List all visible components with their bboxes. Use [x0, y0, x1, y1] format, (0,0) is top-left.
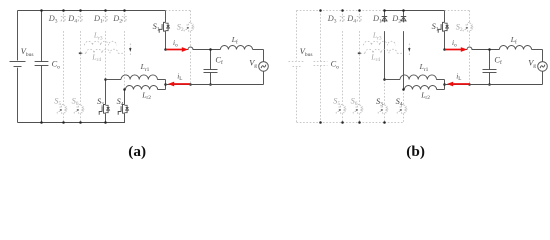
- inductor Lr1 (b): [385, 79, 401, 81]
- wire D3-S5 branch (b): [342, 11, 344, 23]
- battery V_bus (b): [296, 11, 298, 61]
- wire output top (b): [445, 47, 500, 49]
- wire S1 branch (a): [165, 11, 167, 23]
- svg-text:S2: S2: [177, 22, 184, 33]
- node top rail Co (a): [40, 9, 43, 12]
- node top rail Co (b): [319, 9, 322, 12]
- svg-text:S6: S6: [351, 97, 358, 108]
- svg-text:Vbus: Vbus: [300, 47, 313, 58]
- svg-text:Vbus: Vbus: [21, 47, 34, 58]
- wire top rail extension to S2 (a): [166, 10, 191, 12]
- node S1 source (a): [164, 48, 167, 51]
- transistor S2 (a): [189, 22, 191, 31]
- svg-text:Lr2: Lr2: [141, 90, 151, 101]
- diode D1 (a): [103, 17, 108, 21]
- transistor S4 (b): [402, 105, 404, 114]
- transistor S3 (a): [104, 105, 106, 114]
- svg-text:Vg: Vg: [528, 58, 536, 69]
- svg-text:D3: D3: [48, 14, 58, 25]
- node Lr2 left (b): [402, 88, 405, 91]
- node S2 source (a): [189, 83, 192, 86]
- node Cf bottom (a): [209, 83, 212, 86]
- capacitor C_o (a): [41, 11, 43, 62]
- inductor Lr3 (b): [364, 41, 396, 45]
- wire top rail left segment (b): [297, 10, 385, 12]
- diode D3 (a): [61, 17, 66, 21]
- diode D2 (a): [122, 17, 127, 21]
- transistor S3 (b): [383, 105, 385, 114]
- svg-text:Lr2: Lr2: [420, 90, 430, 101]
- svg-text:Lr4: Lr4: [370, 52, 380, 63]
- node Lr1 left (b): [383, 78, 386, 81]
- wire D1 branch upper (a): [105, 11, 107, 23]
- node bottom rail S5 (a): [62, 121, 65, 124]
- inductor Lr2 (a): [125, 85, 157, 89]
- node inductor junction (a): [164, 83, 167, 86]
- node Cf top (b): [488, 48, 491, 51]
- transistor S6 (a): [79, 105, 81, 114]
- source Vg (b): [542, 50, 544, 62]
- transistor S6 (b): [358, 105, 360, 114]
- svg-text:Co: Co: [331, 60, 340, 71]
- wire Lr1-Lr2 bracket (b): [444, 80, 446, 90]
- wire S4 branch (a): [124, 90, 126, 105]
- capacitor Cf (a): [210, 50, 212, 70]
- transistor S1 (b): [443, 22, 445, 31]
- svg-text:S5: S5: [54, 97, 61, 108]
- current arrow i_L (b): [447, 82, 469, 87]
- diode D4 (a): [78, 17, 83, 21]
- node top rail D2 (a): [123, 9, 126, 12]
- inductor Lr4 (b): [361, 52, 366, 54]
- svg-text:S3: S3: [376, 97, 383, 108]
- svg-text:S4: S4: [396, 97, 403, 108]
- node top rail D1 (a): [104, 9, 107, 12]
- inductor Lr4 (a): [82, 52, 87, 54]
- node bottom rail S6 (b): [358, 121, 361, 124]
- svg-text:D4: D4: [346, 14, 356, 25]
- node S1 source (b): [443, 48, 446, 51]
- wire bottom rail S3-S4 segment (a): [106, 115, 125, 123]
- svg-text:S2: S2: [456, 22, 463, 33]
- node S2 source (b): [468, 83, 471, 86]
- wire bottom rail left segment (b): [297, 122, 385, 124]
- svg-text:Vg: Vg: [249, 58, 257, 69]
- wire S3 branch (a): [105, 80, 107, 105]
- svg-text:Lr1: Lr1: [140, 62, 150, 73]
- svg-text:iL: iL: [456, 72, 461, 83]
- svg-text:Lf: Lf: [231, 35, 238, 46]
- svg-text:Lf: Lf: [510, 35, 517, 46]
- current indicator arrow mid (b): [408, 44, 410, 57]
- wire D3-S5 branch (a): [63, 11, 65, 23]
- node bottom rail S5 (b): [341, 121, 344, 124]
- node bottom rail S6 (a): [79, 121, 82, 124]
- diode D2 (b): [401, 17, 406, 21]
- wire output bottom (a): [166, 84, 264, 86]
- current arrow i_o (b): [446, 47, 468, 52]
- inductor Lr1 (a): [106, 79, 122, 81]
- wire output bottom (b): [445, 84, 543, 86]
- node bottom rail S3 (a): [104, 121, 107, 124]
- wire S2 branch (b): [469, 11, 471, 23]
- diode D1 (b): [382, 17, 387, 21]
- current mark Lr4 arrowhead (a): [79, 52, 82, 54]
- wire output top (a): [166, 47, 221, 49]
- node Cf bottom (b): [488, 83, 491, 86]
- node top rail D4 (b): [358, 9, 361, 12]
- wire S1 branch (b): [444, 11, 446, 23]
- node bottom rail S3 (b): [383, 121, 386, 124]
- svg-text:Cf: Cf: [215, 55, 223, 66]
- svg-text:D2: D2: [391, 14, 401, 25]
- wire D2 branch upper (b): [403, 11, 405, 23]
- node top rail D3 (b): [341, 9, 344, 12]
- svg-text:Cf: Cf: [494, 55, 502, 66]
- svg-text:D1: D1: [93, 14, 103, 25]
- wire S3 branch (b): [384, 80, 386, 105]
- wire bottom rail left segment (a): [18, 122, 106, 124]
- node top rail D1 (b): [383, 9, 386, 12]
- diode D4 (b): [357, 17, 362, 21]
- svg-text:Lr3: Lr3: [93, 31, 103, 42]
- wire S2 branch (a): [190, 11, 192, 23]
- svg-text:Lr3: Lr3: [372, 31, 382, 42]
- wire D2 branch upper (a): [124, 11, 126, 23]
- node Lr1 left (a): [104, 78, 107, 81]
- svg-text:(a): (a): [128, 143, 146, 160]
- transistor S2 (b): [468, 22, 470, 31]
- svg-text:D1: D1: [372, 14, 382, 25]
- current indicator arrow mid (a): [129, 44, 131, 57]
- svg-text:D3: D3: [327, 14, 337, 25]
- node Cf top (a): [209, 48, 212, 51]
- svg-text:S1: S1: [432, 22, 439, 33]
- svg-text:io: io: [452, 38, 457, 49]
- wire top rail right segment (b): [385, 10, 445, 12]
- node bottom rail Co (b): [319, 121, 322, 124]
- current arrow i_L (a): [168, 82, 190, 87]
- svg-text:Lr4: Lr4: [91, 52, 101, 63]
- transistor S5 (a): [62, 105, 64, 114]
- wire top rail extension to S2 (b): [445, 10, 470, 12]
- transistor S1 (a): [164, 22, 166, 31]
- current mark Lr4 arrowhead (b): [358, 52, 361, 54]
- svg-text:S5: S5: [333, 97, 340, 108]
- node inductor junction (b): [443, 83, 446, 86]
- node bottom rail Co (a): [40, 121, 43, 124]
- wire Lr1-Lr2 bracket (a): [165, 80, 167, 90]
- svg-text:S4: S4: [117, 97, 124, 108]
- transistor S5 (b): [341, 105, 343, 114]
- capacitor Cf (b): [489, 50, 491, 70]
- svg-text:S1: S1: [153, 22, 160, 33]
- source Vg (a): [263, 50, 265, 62]
- svg-text:iL: iL: [177, 72, 182, 83]
- node top rail D2 (b): [402, 9, 405, 12]
- wire S4 branch (b): [403, 90, 405, 105]
- wire top rail right segment (a): [106, 10, 166, 12]
- transistor S4 (a): [123, 105, 125, 114]
- svg-text:Co: Co: [52, 60, 61, 71]
- node top rail D3 (a): [62, 9, 65, 12]
- wire D4-S6 branch (b): [359, 11, 361, 23]
- wire D1 branch upper (b): [384, 11, 386, 23]
- inductor Lr3 (a): [85, 41, 117, 45]
- wire top rail left segment (a): [18, 10, 106, 12]
- svg-text:D2: D2: [112, 14, 122, 25]
- svg-text:S6: S6: [72, 97, 79, 108]
- inductor Lr2 (b): [404, 85, 436, 89]
- wire bottom rail S3-S4 segment (b): [385, 115, 404, 123]
- inductor Lf (b): [499, 45, 531, 49]
- node top rail D4 (a): [79, 9, 82, 12]
- svg-text:Lr1: Lr1: [419, 62, 429, 73]
- svg-text:io: io: [173, 38, 178, 49]
- capacitor C_o (b): [320, 11, 322, 62]
- battery V_bus (a): [17, 11, 19, 61]
- inductor Lf (a): [220, 45, 252, 49]
- current arrow i_o (a): [167, 47, 189, 52]
- diode D3 (b): [340, 17, 345, 21]
- svg-text:(b): (b): [406, 143, 425, 160]
- svg-text:S3: S3: [97, 97, 104, 108]
- node Lr2 left (a): [123, 88, 126, 91]
- wire D4-S6 branch (a): [80, 11, 82, 23]
- svg-text:D4: D4: [67, 14, 77, 25]
